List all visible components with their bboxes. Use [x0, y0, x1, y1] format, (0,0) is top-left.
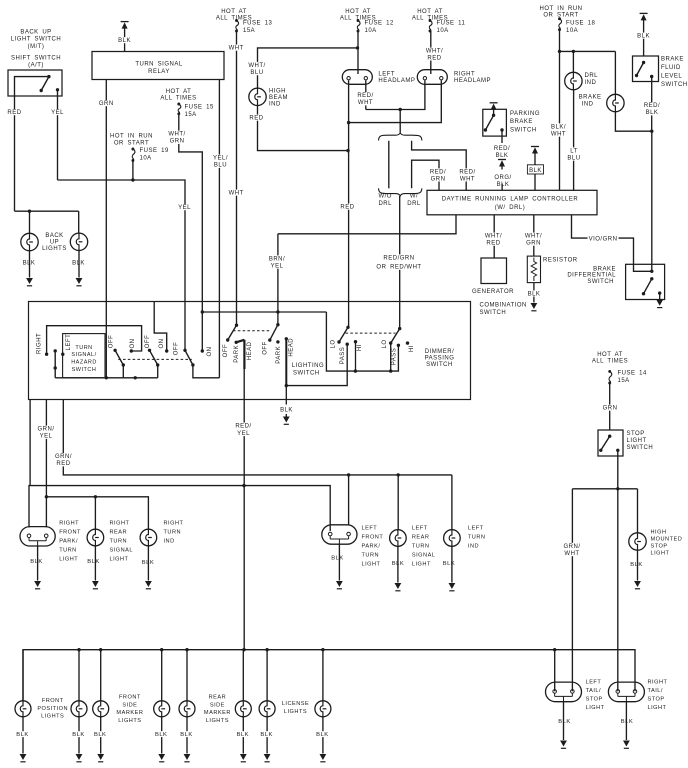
node fuse19/YEL junction: [131, 178, 134, 181]
svg-text:BLK: BLK: [497, 182, 510, 188]
svg-text:10A: 10A: [365, 28, 377, 34]
wire feed front position light 2: [78, 650, 80, 701]
svg-text:HI: HI: [409, 345, 415, 352]
ground at lighting switch: [285, 414, 287, 417]
lighting switch pole 2 head bar: [285, 337, 288, 340]
svg-text:TURN: TURN: [164, 530, 182, 536]
svg-text:LEFT: LEFT: [362, 525, 378, 531]
wire park lamp feed: [29, 486, 330, 531]
wire WHT/BLU to high beam ind: [258, 48, 358, 88]
ground front position light 2: [76, 754, 83, 760]
node DRL ind junction: [572, 50, 575, 53]
svg-text:TURN: TURN: [362, 552, 380, 558]
label BLK resistor: [527, 290, 541, 296]
label WHT/RED: [425, 48, 443, 61]
svg-text:10A: 10A: [437, 28, 449, 34]
wire GRN relay output: [105, 80, 107, 378]
ground left front park light: [338, 544, 340, 580]
label BLK high mounted: [630, 561, 644, 567]
right turn indicator bulb: [140, 529, 157, 546]
contact PARK lighting 1: [235, 341, 238, 344]
svg-text:DRL: DRL: [407, 201, 421, 207]
svg-text:MARKER: MARKER: [116, 710, 143, 716]
svg-text:RED/: RED/: [494, 146, 510, 152]
svg-text:PARK: PARK: [234, 345, 240, 363]
wire brake differential switch to ground: [659, 293, 661, 299]
label BLK front position light 2: [72, 731, 86, 737]
svg-text:RED: RED: [486, 241, 500, 247]
fuse F11: [429, 19, 432, 22]
svg-text:SWITCH: SWITCH: [510, 127, 537, 133]
wire LO dimmer 2 riser: [390, 343, 392, 371]
svg-text:RED: RED: [249, 116, 263, 122]
svg-text:HEAD: HEAD: [288, 338, 294, 357]
back up light bulb right: [70, 233, 87, 250]
svg-text:IND: IND: [582, 101, 594, 107]
node headlamp low beam junction: [399, 108, 402, 111]
svg-text:LIGHTS: LIGHTS: [206, 718, 229, 724]
label BLK rear side marker light 1: [180, 731, 194, 737]
svg-text:HOT AT: HOT AT: [166, 89, 192, 95]
svg-text:SWITCH: SWITCH: [72, 367, 97, 373]
label BLK right tail: [620, 718, 634, 724]
ground right tail light: [625, 702, 627, 740]
wire GRN/RED output: [63, 400, 452, 475]
svg-text:BACK: BACK: [45, 233, 63, 239]
label YEL/BLU: [211, 155, 229, 168]
svg-text:ORG/: ORG/: [494, 175, 511, 181]
left tail/stop light lamp: [546, 682, 582, 702]
wire GRN/YEL to right turn lamps: [46, 497, 148, 530]
svg-text:RED: RED: [56, 461, 70, 467]
svg-text:IND: IND: [269, 101, 281, 107]
stop light switch contacts: [608, 435, 611, 438]
label BLK license light 2: [316, 731, 330, 737]
wire feed front side marker light 2: [161, 650, 163, 701]
svg-text:BRAKE: BRAKE: [593, 266, 616, 272]
wire to high mounted stop light: [637, 489, 639, 533]
svg-text:REAR: REAR: [412, 534, 430, 540]
label BLK license light 1: [260, 731, 274, 737]
dashed linkage lighting switch: [233, 330, 269, 332]
svg-text:GRN: GRN: [431, 176, 446, 182]
ground at boxed BLK: [531, 146, 539, 148]
node RED junction upper: [347, 121, 350, 124]
contact PASS dimmer 1: [346, 343, 349, 346]
svg-text:10A: 10A: [566, 28, 578, 34]
svg-text:RED/: RED/: [430, 169, 446, 175]
fuse F15: [177, 103, 180, 106]
wire tail/park bus: [23, 650, 635, 701]
left rear turn signal light bulb: [390, 530, 407, 547]
svg-text:BLK: BLK: [237, 732, 249, 738]
wire RED from high beam ind: [258, 106, 349, 151]
svg-text:BACK UP: BACK UP: [20, 30, 51, 36]
label BLK brake fluid ground: [637, 33, 651, 39]
svg-text:STOP: STOP: [651, 543, 668, 549]
contact PARK lighting 2: [276, 340, 279, 343]
svg-text:RED: RED: [340, 205, 354, 211]
turn signal wiper: [54, 349, 57, 352]
brake fluid level switch contacts: [642, 61, 645, 64]
wire W/ DRL branch RED/WHT: [412, 141, 467, 191]
node bus RED/YEL: [242, 648, 245, 651]
wire RED/BLK to brake differential switch: [651, 131, 653, 271]
svg-text:RESISTOR: RESISTOR: [543, 258, 578, 264]
wire to back up lights: [15, 210, 79, 212]
lighting switch pole 1 head bar: [236, 340, 244, 343]
svg-text:SWITCH: SWITCH: [627, 445, 654, 451]
label VIO/GRN: [588, 236, 619, 242]
svg-text:TURN: TURN: [468, 534, 486, 540]
ground left tail light: [563, 702, 565, 740]
contact HI dimmer 1 with bar: [354, 340, 357, 343]
node bus front position light 2: [77, 648, 80, 651]
svg-text:WHT: WHT: [229, 191, 244, 197]
svg-text:(A/T): (A/T): [28, 63, 44, 69]
svg-text:GRN: GRN: [603, 406, 618, 412]
wire feed rear side marker light 1: [186, 650, 188, 701]
label BLK right: [72, 260, 86, 266]
node HI bar on dimmer bus: [354, 369, 357, 372]
dimmer switch pole 2 pivot: [398, 327, 401, 330]
svg-text:IND: IND: [585, 80, 597, 86]
svg-text:GRN: GRN: [526, 241, 541, 247]
label BLK left: [22, 260, 36, 266]
svg-text:LIGHT: LIGHT: [627, 438, 647, 444]
node back up lights junction: [28, 210, 31, 213]
wire BRN/YEL from controller to lighting switch: [277, 234, 279, 325]
svg-text:LIGHTS: LIGHTS: [42, 246, 67, 252]
label GRN: [99, 100, 113, 106]
svg-text:15A: 15A: [243, 28, 255, 34]
svg-text:SWITCH: SWITCH: [587, 279, 614, 285]
svg-text:WHT: WHT: [564, 551, 579, 557]
svg-text:BLK: BLK: [630, 562, 642, 568]
svg-text:LIGHT: LIGHT: [362, 561, 381, 567]
lighting switch pole 2 pivot: [276, 323, 279, 326]
wire GRN/YEL output: [45, 400, 47, 528]
wire WHT/RED to generator: [493, 215, 495, 258]
contact RIGHT: [45, 353, 48, 356]
right headlamp lamp: [417, 70, 447, 85]
svg-text:PASS: PASS: [340, 347, 346, 365]
label RED on dimmer feed: [341, 204, 355, 210]
brace upper: [379, 133, 422, 141]
svg-text:RELAY: RELAY: [148, 69, 170, 75]
svg-text:FUSE 12: FUSE 12: [365, 21, 395, 27]
svg-text:TURN: TURN: [59, 548, 77, 554]
svg-text:FRONT: FRONT: [119, 695, 141, 701]
svg-text:ON: ON: [207, 347, 213, 357]
svg-text:RIGHT: RIGHT: [648, 680, 668, 686]
wire left headlamp left terminal: [348, 80, 350, 122]
svg-text:PASS: PASS: [392, 348, 398, 366]
svg-text:HOT AT: HOT AT: [417, 9, 443, 15]
label BLK front side marker light 2: [155, 731, 169, 737]
svg-text:FUSE 19: FUSE 19: [140, 148, 170, 154]
svg-text:DIMMER/: DIMMER/: [425, 349, 455, 355]
label ORG/BLK: [494, 174, 512, 187]
ground back up light left: [29, 251, 31, 278]
svg-text:RED/: RED/: [459, 169, 475, 175]
wire ground rear side marker light 1: [186, 717, 188, 754]
label BLK rear side marker light 2: [236, 731, 250, 737]
svg-text:BLK: BLK: [16, 732, 28, 738]
wire YEL from back-up switch: [57, 90, 59, 180]
node BRN/YEL lighting feed: [276, 310, 279, 313]
label RED/WHT: [356, 92, 374, 105]
wire VIO/GRN controller to brake differential switch: [572, 215, 634, 264]
wire RED/BLK from brake fluid switch: [651, 77, 653, 132]
wire ground front position light 2: [78, 717, 80, 754]
back up light bulb left: [21, 233, 38, 250]
wire ground rear side marker light 2: [242, 717, 244, 754]
svg-text:SWITCH: SWITCH: [661, 82, 688, 88]
svg-text:IND: IND: [164, 539, 175, 545]
svg-text:TAIL/: TAIL/: [648, 688, 663, 694]
wire RIGHT contact loop to ON: [47, 326, 142, 355]
wire WHT/GRN from fuse 15: [179, 114, 203, 351]
front side marker light 2 bulb: [154, 701, 170, 717]
label LT BLU: [567, 147, 581, 160]
svg-text:HI: HI: [357, 344, 363, 351]
svg-text:HOT AT: HOT AT: [345, 9, 371, 15]
combination switch outline box: [29, 302, 471, 400]
wire WHT/GRN to resistor: [533, 215, 535, 256]
svg-text:WHT/: WHT/: [248, 63, 265, 69]
node bus front side marker light 1: [99, 648, 102, 651]
node bus rear side marker light 1: [185, 648, 188, 651]
high mounted stop light bulb: [629, 533, 646, 550]
svg-text:STOP: STOP: [586, 697, 603, 703]
wire dimmer bus: [326, 312, 398, 371]
svg-text:RED: RED: [427, 55, 441, 61]
svg-text:WHT/: WHT/: [168, 132, 185, 138]
front position light 2 bulb: [71, 701, 87, 717]
label GRN/YEL: [37, 426, 55, 439]
ground at brake differential switch: [656, 300, 663, 306]
svg-text:TURN: TURN: [110, 539, 128, 545]
svg-text:BLK: BLK: [180, 732, 192, 738]
back-up light switch contacts: [15, 77, 49, 96]
svg-text:ON: ON: [159, 339, 165, 349]
node fuse 18 junction: [558, 50, 561, 53]
svg-text:GRN/: GRN/: [55, 454, 72, 460]
svg-text:BLU: BLU: [567, 156, 580, 162]
wire stop light switch output: [617, 450, 619, 691]
svg-text:15A: 15A: [618, 378, 630, 384]
svg-text:(M/T): (M/T): [28, 44, 45, 50]
wire to indicator bulbs: [560, 50, 616, 52]
wire RED down to dimmer switch: [348, 123, 350, 328]
label WHT/GRN resistor: [524, 233, 542, 246]
wire ground front side marker light 1: [100, 717, 102, 754]
svg-text:FUSE 13: FUSE 13: [243, 21, 273, 27]
ground left rear turn light: [397, 546, 399, 582]
svg-text:OFF: OFF: [109, 335, 115, 349]
label WHT lower: [229, 190, 243, 196]
label WHT upper: [229, 45, 243, 51]
svg-text:HEADLAMP: HEADLAMP: [454, 78, 491, 84]
svg-text:BLK: BLK: [558, 719, 570, 725]
label RED/YEL: [234, 423, 252, 437]
svg-text:LO: LO: [330, 339, 336, 348]
svg-text:WHT/: WHT/: [485, 234, 502, 240]
svg-text:DIFFERENTIAL: DIFFERENTIAL: [567, 273, 616, 279]
svg-text:OR START: OR START: [114, 141, 149, 147]
wire BLK lighting switch ground: [285, 386, 287, 405]
wire left front park/turn right terminal feed: [348, 475, 350, 526]
svg-text:ON: ON: [130, 339, 136, 349]
node RED/YEL on park feed: [242, 484, 245, 487]
label BLK/WHT: [549, 123, 567, 136]
svg-text:COMBINATION: COMBINATION: [480, 302, 527, 308]
wire left tail light left terminal feed: [554, 650, 556, 692]
label BLK lighting ground: [280, 407, 294, 413]
svg-text:LIGHTS: LIGHTS: [41, 714, 64, 720]
label BACK UP LIGHTS: [41, 232, 68, 251]
left front park/turn light lamp: [322, 525, 357, 544]
svg-text:10A: 10A: [140, 155, 152, 161]
dashed linkage dimmer switch: [346, 332, 396, 334]
svg-text:TURN: TURN: [412, 543, 430, 549]
wire RED/YEL output: [243, 369, 245, 650]
right tail/stop light lamp: [608, 682, 644, 702]
wire head junction to PASS riser: [286, 344, 347, 385]
wire left rear turn drop: [397, 475, 399, 530]
svg-text:BLK: BLK: [331, 556, 343, 562]
wire WHT/RED fuse 11 to right headlamp: [430, 31, 432, 74]
ground front side marker light 1: [97, 754, 104, 760]
brake differential switch box: [626, 264, 665, 299]
label GRN/WHT: [563, 543, 581, 556]
svg-text:RED/: RED/: [235, 424, 251, 430]
label YEL: [51, 109, 65, 115]
svg-text:BRN/: BRN/: [269, 256, 285, 262]
label RED/WHT to controller: [458, 168, 476, 181]
svg-text:OR RED/WHT: OR RED/WHT: [376, 265, 421, 271]
wire GRN fuse 14 to stop light switch: [609, 383, 611, 430]
label BLK left tail: [558, 718, 572, 724]
svg-text:BRAKE: BRAKE: [510, 119, 533, 125]
wire right rear turn drop: [94, 497, 96, 530]
svg-text:WHT/: WHT/: [525, 234, 542, 240]
svg-text:SIGNAL: SIGNAL: [110, 548, 134, 554]
svg-text:LEFT: LEFT: [412, 525, 428, 531]
node left rear turn feed: [397, 473, 400, 476]
svg-text:YEL: YEL: [178, 205, 191, 211]
dashed linkage turn signal hazard: [118, 358, 192, 360]
svg-text:STOP: STOP: [627, 431, 645, 437]
svg-text:UP: UP: [50, 239, 59, 245]
wire ON2 feed from box top: [154, 302, 167, 352]
svg-text:FUSE 15: FUSE 15: [185, 105, 215, 111]
svg-text:MARKER: MARKER: [204, 710, 231, 716]
svg-text:SIGNAL: SIGNAL: [412, 552, 436, 558]
svg-text:FRONT: FRONT: [42, 698, 64, 704]
wire WHT from fuse 13 to lighting switch: [236, 31, 238, 325]
parking brake switch box: [483, 109, 507, 136]
svg-text:SWITCH: SWITCH: [293, 371, 320, 377]
wire BLK/WHT fuse 18 to controller: [559, 30, 561, 191]
svg-text:VIO/GRN: VIO/GRN: [589, 237, 618, 243]
wire headlamp low beams join: [366, 80, 425, 109]
svg-text:HOT AT: HOT AT: [597, 352, 623, 358]
wire WHT/GRN lighting feed: [202, 311, 326, 313]
svg-text:LEFT: LEFT: [586, 680, 602, 686]
svg-text:HEAD: HEAD: [247, 341, 253, 360]
svg-text:BRAKE: BRAKE: [579, 94, 602, 100]
label RED/GRN to controller: [429, 168, 447, 181]
svg-text:15A: 15A: [185, 112, 197, 118]
node RED/BLK junction: [650, 130, 653, 133]
turn signal hazard switch inner box: [63, 334, 105, 378]
label BLK front side marker light 1: [94, 731, 108, 737]
svg-text:FRONT: FRONT: [362, 534, 384, 540]
svg-text:WHT: WHT: [551, 132, 566, 138]
label RED/BLK parking: [493, 145, 511, 158]
DRL indicator bulb: [565, 72, 582, 89]
wire ORG/BLK to controller: [501, 184, 503, 191]
turn signal relay box: [92, 52, 224, 80]
svg-text:POSITION: POSITION: [37, 706, 68, 712]
svg-text:TURN: TURN: [75, 345, 92, 351]
svg-text:WHT: WHT: [460, 176, 475, 182]
daytime running lamp controller box: [427, 190, 597, 215]
parking brake switch contacts: [493, 109, 495, 115]
ground back up light right: [78, 251, 80, 278]
fuse F13: [235, 19, 238, 22]
svg-text:BLK: BLK: [316, 732, 328, 738]
left headlamp lamp: [342, 70, 372, 85]
ground front position light 1: [20, 754, 27, 760]
label BLK relay ground: [118, 37, 132, 43]
svg-text:(W/ DRL): (W/ DRL): [495, 205, 526, 211]
svg-text:HOT AT: HOT AT: [221, 9, 247, 15]
svg-text:HAZARD: HAZARD: [71, 360, 97, 366]
svg-text:SIDE: SIDE: [122, 702, 137, 708]
svg-text:FRONT: FRONT: [59, 530, 81, 536]
svg-text:BLK: BLK: [646, 110, 659, 116]
svg-text:RED/: RED/: [644, 103, 660, 109]
contact PASS dimmer 2: [397, 344, 400, 347]
label BLK right front: [30, 558, 44, 564]
svg-text:BLU: BLU: [250, 70, 263, 76]
svg-text:YEL: YEL: [51, 110, 64, 116]
node GRN on hazard bus: [105, 376, 108, 379]
ground at turn signal relay: [121, 21, 129, 23]
svg-text:PARKING: PARKING: [510, 111, 540, 117]
svg-text:BLK: BLK: [637, 34, 650, 40]
svg-text:RIGHT: RIGHT: [164, 521, 184, 527]
node right rear turn feed: [94, 495, 97, 498]
wire RED from back-up switch: [14, 96, 16, 211]
wire fuse 12 to left headlamp: [357, 31, 359, 74]
svg-text:LEFT: LEFT: [468, 525, 484, 531]
svg-text:LIGHT: LIGHT: [59, 557, 78, 563]
rear side marker light 2 bulb: [235, 701, 251, 717]
lighting switch pole 1 pivot: [235, 324, 238, 327]
svg-text:HIGH: HIGH: [651, 529, 667, 535]
node bus front side marker light 2: [160, 648, 163, 651]
svg-text:BLK: BLK: [280, 408, 293, 414]
wire RED/BLK from parking brake switch: [501, 130, 503, 143]
svg-text:TURN SIGNAL: TURN SIGNAL: [135, 62, 183, 68]
label YEL: [178, 204, 192, 210]
svg-text:HOT IN RUN: HOT IN RUN: [540, 6, 583, 12]
contact HI dimmer 2: [406, 341, 409, 344]
